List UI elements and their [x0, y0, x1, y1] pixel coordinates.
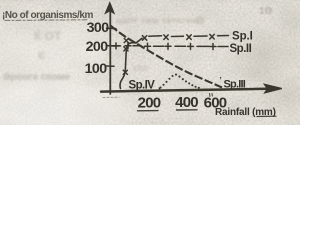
light paper patch left-center	[0, 26, 105, 78]
underline under (mm)	[257, 115, 276, 117]
Sp.I x markers	[142, 34, 214, 40]
x label 200 (underlined)	[138, 95, 161, 112]
svg-text:Ќ ОТ: Ќ ОТ	[34, 28, 62, 43]
axis title: No of organisms/km	[2, 10, 93, 21]
y label 300	[87, 20, 110, 36]
svg-text:400: 400	[175, 94, 198, 111]
svg-text:300: 300	[87, 20, 110, 36]
x-axis	[101, 89, 266, 92]
svg-text:¡No of organisms/km: ¡No of organisms/km	[2, 10, 93, 21]
x label 400 (underlined)	[175, 94, 198, 111]
Sp.IV label	[129, 80, 156, 92]
bleed-through faint text left middle	[3, 72, 71, 83]
y label 200	[86, 39, 109, 55]
svg-text:цштг тиш тотегеш: цштг тиш тотегеш	[116, 15, 198, 25]
bleed-through faint marks below title	[34, 28, 62, 62]
faint dotted marks below axis at left	[103, 96, 119, 98]
svg-text:Θ: Θ	[196, 15, 205, 27]
svg-text:Є: Є	[38, 51, 45, 62]
title underline (dashed)	[5, 19, 88, 22]
svg-text:Sp.IV: Sp.IV	[129, 80, 156, 92]
small tick below axis near 600	[210, 94, 213, 97]
Sp.II dashed line with + markers at 200 level	[112, 45, 229, 48]
y-axis arrowhead	[106, 3, 114, 13]
y tick 100	[107, 65, 115, 67]
svg-text:Əрооге гпоме: Əрооге гпоме	[3, 72, 71, 83]
x markers on rising curve	[123, 38, 128, 74]
svg-text:Sp.III: Sp.III	[224, 79, 246, 91]
x-axis title: Rainfall (mm)	[215, 107, 276, 118]
y tick 200	[107, 45, 117, 47]
svg-text:сtо: сtо	[133, 63, 148, 74]
svg-text:200: 200	[86, 39, 109, 55]
bleed-through faint band above Sp.I line	[116, 15, 205, 27]
x label 600	[204, 95, 227, 112]
y tick 300	[107, 27, 117, 29]
svg-text:’: ’	[220, 76, 222, 85]
y label 100	[85, 61, 108, 77]
Sp.I dashed line with x markers at ~250 level	[149, 36, 229, 37]
Sp.II + markers	[113, 43, 216, 50]
svg-text:,: ,	[158, 81, 161, 92]
y-axis	[109, 10, 111, 94]
bleed-through page number 16 top right	[259, 6, 273, 17]
light paper patch bottom-left	[0, 78, 130, 138]
svg-text:Sp.II: Sp.II	[230, 43, 252, 55]
svg-text:1Θ: 1Θ	[259, 6, 273, 17]
svg-text:200: 200	[138, 95, 161, 112]
Sp.III label	[220, 76, 246, 91]
bleed-through faint word inside plot left	[133, 63, 148, 74]
Sp.I label	[232, 31, 253, 43]
Sp.II label	[230, 43, 252, 55]
chart ink	[2, 3, 282, 118]
svg-text:Sp.I: Sp.I	[232, 31, 253, 43]
x-axis arrowhead	[265, 84, 282, 93]
svg-text:100: 100	[85, 61, 108, 77]
Sp.IV dotted hump near x-axis	[159, 74, 199, 89]
paper grain noise	[0, 0, 300, 125]
paper blotches	[0, 0, 300, 125]
comma after Sp.IV	[158, 81, 161, 92]
Sp.I rising curve at low rainfall	[120, 38, 142, 88]
Sp.III line (descending from 300 to x-axis near 600)	[111, 26, 223, 88]
